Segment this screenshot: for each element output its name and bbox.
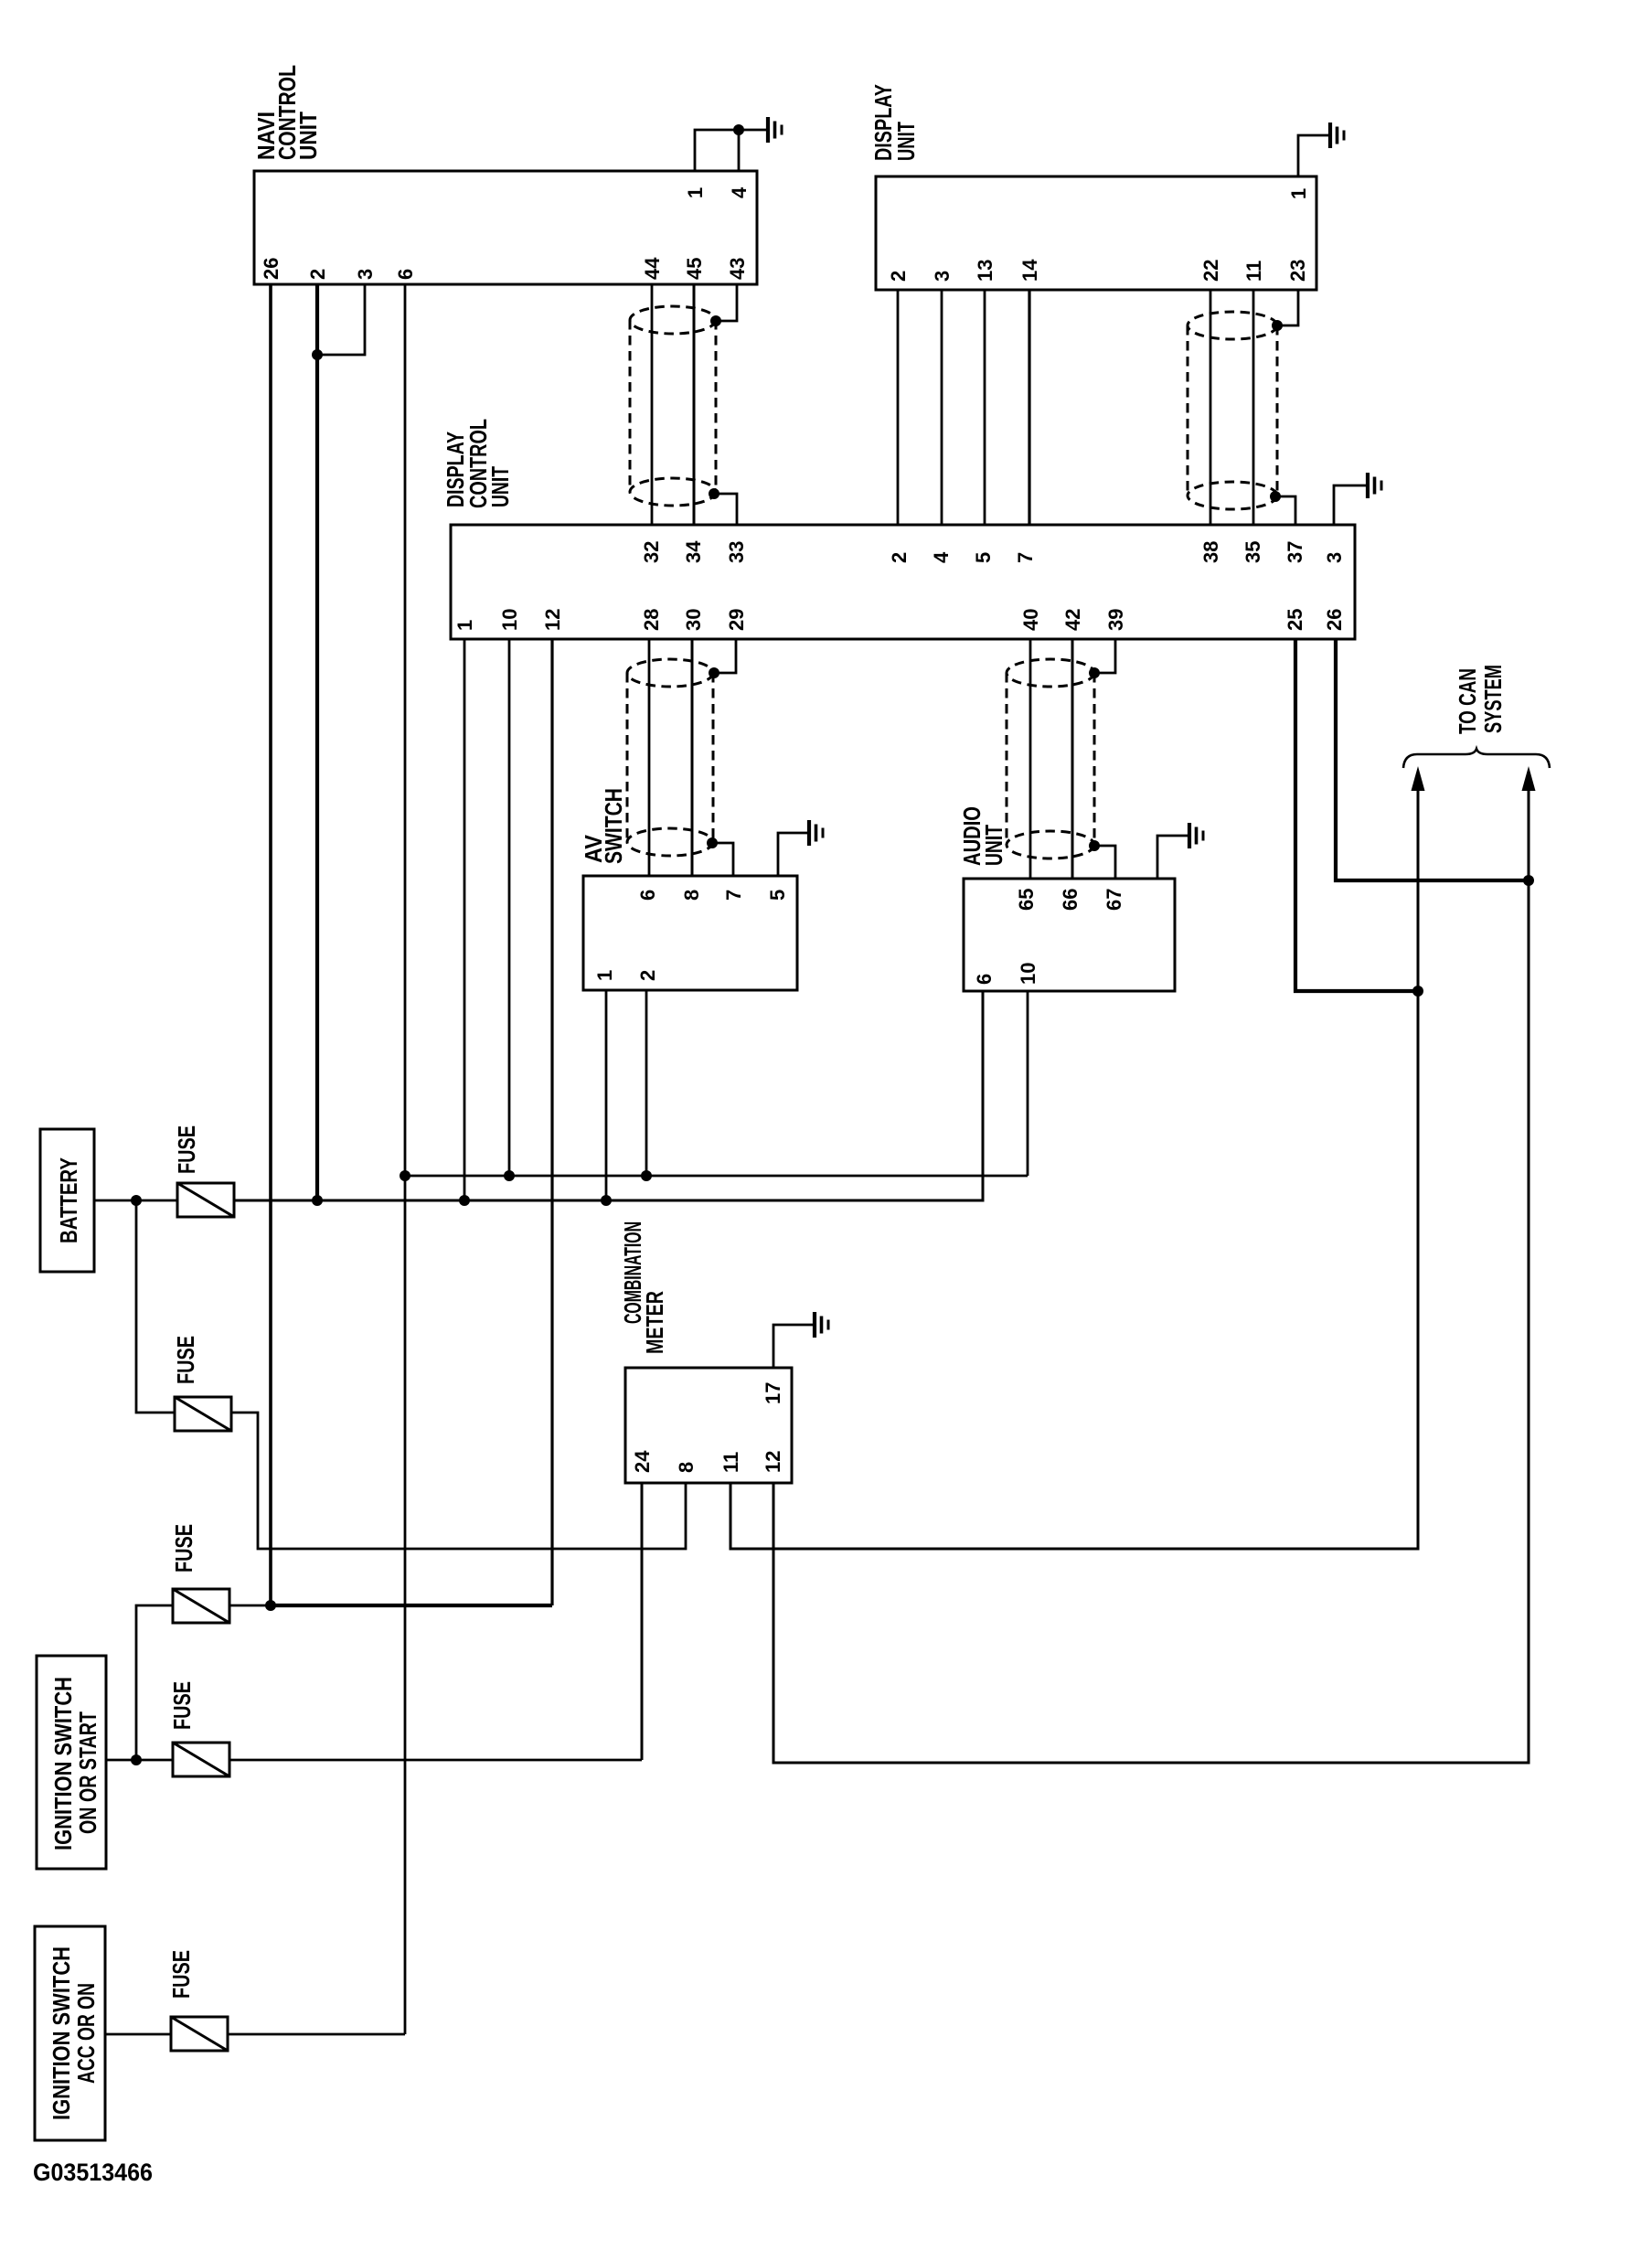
svg-text:26: 26	[1323, 609, 1346, 631]
svg-text:3: 3	[931, 271, 954, 282]
svg-text:43: 43	[726, 258, 749, 280]
svg-text:FUSE: FUSE	[168, 1681, 196, 1730]
svg-text:IGNITION SWITCH: IGNITION SWITCH	[49, 1677, 77, 1850]
svg-text:2: 2	[888, 552, 911, 563]
svg-text:39: 39	[1104, 609, 1127, 631]
svg-text:1: 1	[453, 620, 476, 631]
svg-text:UNIT: UNIT	[294, 112, 322, 160]
svg-text:FUSE: FUSE	[172, 1336, 199, 1384]
svg-text:38: 38	[1199, 541, 1222, 563]
svg-text:29: 29	[725, 609, 748, 631]
svg-text:2: 2	[306, 269, 329, 280]
svg-text:12: 12	[762, 1451, 784, 1473]
svg-text:34: 34	[682, 540, 705, 563]
svg-text:44: 44	[641, 257, 664, 280]
svg-text:66: 66	[1059, 889, 1082, 911]
svg-text:SWITCH: SWITCH	[600, 788, 627, 864]
svg-text:METER: METER	[641, 1291, 668, 1354]
svg-text:ACC OR ON: ACC OR ON	[72, 1983, 100, 2084]
svg-text:1: 1	[1287, 188, 1310, 199]
svg-text:5: 5	[766, 890, 789, 901]
svg-text:22: 22	[1199, 260, 1222, 282]
svg-text:42: 42	[1061, 609, 1084, 631]
svg-text:1: 1	[593, 970, 616, 981]
svg-text:6: 6	[973, 974, 996, 985]
svg-text:8: 8	[680, 890, 703, 901]
svg-text:26: 26	[260, 258, 282, 280]
svg-text:24: 24	[631, 1450, 654, 1473]
svg-text:10: 10	[498, 609, 521, 631]
svg-text:32: 32	[640, 541, 663, 563]
svg-text:2: 2	[887, 271, 910, 282]
svg-text:13: 13	[974, 260, 997, 282]
svg-text:ON OR START: ON OR START	[74, 1711, 101, 1834]
svg-text:7: 7	[1014, 552, 1037, 563]
svg-text:37: 37	[1284, 541, 1306, 563]
svg-text:14: 14	[1018, 259, 1041, 282]
svg-text:SYSTEM: SYSTEM	[1479, 665, 1507, 733]
svg-text:28: 28	[640, 609, 663, 631]
svg-text:UNIT: UNIT	[892, 122, 920, 161]
svg-text:23: 23	[1286, 260, 1309, 282]
svg-text:4: 4	[930, 551, 953, 563]
svg-text:TO CAN: TO CAN	[1454, 668, 1481, 734]
svg-text:45: 45	[683, 258, 706, 280]
svg-text:5: 5	[972, 552, 995, 563]
svg-text:FUSE: FUSE	[173, 1125, 200, 1174]
svg-text:7: 7	[722, 890, 745, 901]
svg-text:FUSE: FUSE	[167, 1950, 195, 1999]
svg-text:17: 17	[762, 1382, 784, 1404]
svg-text:4: 4	[728, 187, 751, 198]
svg-text:UNIT: UNIT	[980, 825, 1007, 866]
svg-text:40: 40	[1019, 609, 1042, 631]
svg-text:FUSE: FUSE	[170, 1524, 197, 1573]
svg-text:6: 6	[636, 890, 659, 901]
svg-text:25: 25	[1284, 609, 1306, 631]
svg-text:G03513466: G03513466	[33, 2159, 153, 2186]
svg-text:67: 67	[1103, 889, 1125, 911]
svg-text:11: 11	[719, 1452, 742, 1473]
svg-text:6: 6	[394, 269, 417, 280]
svg-text:2: 2	[636, 970, 659, 981]
svg-text:UNIT: UNIT	[486, 466, 514, 507]
svg-text:33: 33	[725, 541, 748, 563]
svg-text:35: 35	[1242, 541, 1264, 563]
svg-text:11: 11	[1242, 261, 1265, 282]
svg-text:1: 1	[684, 187, 707, 198]
svg-text:10: 10	[1017, 963, 1039, 985]
svg-text:65: 65	[1015, 889, 1038, 911]
svg-text:12: 12	[541, 609, 564, 631]
svg-text:8: 8	[675, 1462, 698, 1473]
svg-text:30: 30	[682, 609, 705, 631]
svg-text:3: 3	[1323, 552, 1346, 563]
svg-text:IGNITION SWITCH: IGNITION SWITCH	[48, 1946, 75, 2120]
svg-text:BATTERY: BATTERY	[55, 1157, 82, 1243]
svg-text:3: 3	[354, 269, 377, 280]
